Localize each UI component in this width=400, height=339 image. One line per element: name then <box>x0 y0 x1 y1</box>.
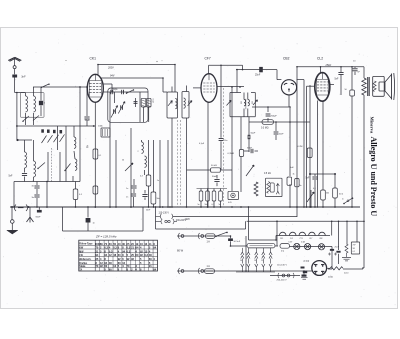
svg-text:CL2: CL2 <box>317 56 323 60</box>
svg-text:Wellensch.: Wellensch. <box>79 259 91 261</box>
svg-text:0,3: 0,3 <box>140 176 143 178</box>
svg-text:50pF: 50pF <box>251 133 256 135</box>
svg-text:CB2: CB2 <box>283 56 290 60</box>
svg-text:50n: 50n <box>205 204 208 206</box>
svg-text:0,1µF: 0,1µF <box>199 143 205 145</box>
svg-text:0.5 kΩ: 0.5 kΩ <box>264 173 271 175</box>
svg-text:200pF: 200pF <box>271 116 278 118</box>
svg-text:10n: 10n <box>224 140 227 142</box>
svg-text:Skala: Skala <box>79 266 86 268</box>
svg-text:80 W: 80 W <box>177 249 184 253</box>
svg-text:ZF = 128,5 kHz: ZF = 128,5 kHz <box>95 234 117 238</box>
svg-text:CY2: CY2 <box>304 259 310 263</box>
svg-text:Minerva: Minerva <box>370 117 375 135</box>
svg-text:1 A: 1 A <box>207 265 211 268</box>
svg-text:1n: 1n <box>126 197 128 199</box>
svg-text:500: 500 <box>251 101 253 104</box>
svg-text:X: X <box>153 242 155 246</box>
svg-text:0,1MΩ: 0,1MΩ <box>228 153 235 155</box>
svg-text:200Ω: 200Ω <box>328 277 333 279</box>
svg-text:2: 2 <box>138 151 139 153</box>
svg-text:50: 50 <box>240 260 242 262</box>
svg-text:10: 10 <box>254 260 256 262</box>
svg-text:Drehko: Drehko <box>79 263 88 265</box>
svg-text:TA: TA <box>79 269 82 272</box>
svg-text:CF7: CF7 <box>309 238 312 240</box>
svg-text:0,3: 0,3 <box>127 249 131 253</box>
svg-text:50k: 50k <box>326 193 329 195</box>
svg-text:50·5nF: 50·5nF <box>234 241 241 243</box>
svg-text:5n: 5n <box>300 185 302 187</box>
svg-text:1n: 1n <box>93 223 95 225</box>
svg-text:CL2: CL2 <box>290 238 293 240</box>
svg-text:110-130 V: 110-130 V <box>159 213 170 215</box>
svg-text:45nF: 45nF <box>85 120 91 122</box>
svg-text:220V: 220V <box>184 219 191 221</box>
svg-text:CK1: CK1 <box>90 57 97 61</box>
svg-text:0.05: 0.05 <box>228 202 232 204</box>
svg-text:50pF: 50pF <box>113 89 119 91</box>
svg-text:5n: 5n <box>198 204 200 206</box>
svg-text:0.3 MΩ: 0.3 MΩ <box>261 127 269 129</box>
svg-text:50nF: 50nF <box>247 148 253 150</box>
svg-text:500: 500 <box>240 101 242 104</box>
svg-text:Röhre-Type: Röhre-Type <box>79 243 93 246</box>
svg-text:0,1: 0,1 <box>99 155 102 157</box>
svg-text:0,1: 0,1 <box>313 188 316 190</box>
svg-text:5nF: 5nF <box>306 178 311 180</box>
svg-text:50nF: 50nF <box>212 176 218 178</box>
svg-text:0.2M: 0.2M <box>298 146 303 148</box>
svg-text:1 A: 1 A <box>207 241 211 244</box>
svg-text:1n: 1n <box>157 180 159 182</box>
svg-text:500: 500 <box>170 101 172 104</box>
svg-text:94V: 94V <box>110 75 115 78</box>
svg-text:25nF: 25nF <box>255 75 261 77</box>
svg-text:50nF: 50nF <box>36 216 42 218</box>
svg-text:0,1: 0,1 <box>212 204 215 206</box>
svg-text:CY1: CY1 <box>300 238 303 240</box>
svg-text:Allegro U und Presto U: Allegro U und Presto U <box>369 137 378 217</box>
svg-text:0,3: 0,3 <box>109 249 113 253</box>
svg-text:1k: 1k <box>87 146 89 148</box>
svg-text:50: 50 <box>122 160 124 162</box>
svg-text:25nF: 25nF <box>335 247 340 249</box>
svg-text:0.1: 0.1 <box>353 251 356 253</box>
svg-text:50 kΩ: 50 kΩ <box>211 165 217 167</box>
svg-text:15: 15 <box>261 260 263 262</box>
svg-text:1n: 1n <box>126 188 128 190</box>
svg-text:10nF: 10nF <box>279 134 285 136</box>
svg-text:1k: 1k <box>293 174 295 176</box>
svg-text:5nF: 5nF <box>9 176 14 178</box>
svg-text:25kΩ: 25kΩ <box>325 64 332 67</box>
svg-text:200-240 V: 200-240 V <box>277 280 288 282</box>
svg-text:110-130 V: 110-130 V <box>277 265 287 267</box>
svg-text:3nF: 3nF <box>21 76 26 79</box>
svg-text:50n: 50n <box>157 198 160 200</box>
svg-text:5nF: 5nF <box>290 167 294 169</box>
svg-text:5n: 5n <box>219 204 221 206</box>
svg-text:CF7: CF7 <box>205 56 211 60</box>
svg-text:CK1: CK1 <box>280 238 283 240</box>
svg-text:500: 500 <box>187 101 189 104</box>
svg-text:5nF: 5nF <box>335 79 340 81</box>
svg-text:4 Ω: 4 Ω <box>281 250 285 252</box>
svg-text:200V: 200V <box>107 66 114 69</box>
svg-text:CB2: CB2 <box>319 238 322 240</box>
